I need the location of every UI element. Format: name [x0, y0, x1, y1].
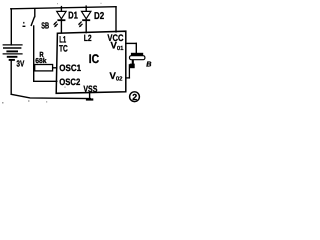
wire D2 bottom lead to L2	[85, 20, 87, 33]
svg-text:3V: 3V	[16, 59, 24, 69]
wire D2 top stub	[85, 7, 87, 11]
wire resistor right lead	[53, 67, 57, 69]
svg-text:68k: 68k	[35, 56, 46, 65]
junction tick D1 stub	[61, 6, 62, 8]
wire switch to OSC2 vertical	[33, 26, 35, 81]
junction tick D2 stub	[86, 5, 87, 7]
LED D2	[78, 11, 91, 27]
wire D1 top stub	[60, 8, 62, 11]
wire VO2 jog vertical	[128, 65, 130, 78]
wire piezo top lead	[135, 43, 137, 52]
svg-text:OSC2: OSC2	[59, 77, 80, 87]
svg-text:VSS: VSS	[83, 84, 97, 94]
wire bottom rail	[11, 94, 90, 98]
wire VSS stub	[89, 93, 91, 99]
svg-text:SB: SB	[41, 20, 49, 30]
LED D1	[53, 11, 66, 27]
speckle dots (scan noise)	[2, 3, 101, 104]
wire VO1 horizontal	[126, 42, 137, 44]
svg-text:B: B	[146, 60, 151, 69]
wire VO2 horizontal	[126, 77, 130, 79]
node circled 2 figure number	[130, 92, 140, 102]
piezo buzzer B	[130, 53, 145, 68]
svg-text:D1: D1	[68, 11, 78, 22]
svg-text:IC: IC	[89, 52, 99, 66]
svg-text:2: 2	[132, 92, 137, 102]
resistor R 68k	[35, 65, 53, 71]
wire switch stub from rail	[34, 9, 36, 17]
svg-text:OSC1: OSC1	[59, 63, 81, 73]
switch SB	[23, 17, 35, 27]
svg-text:D2: D2	[94, 11, 105, 22]
op IC box	[56, 31, 126, 93]
wire D1 bottom lead to L1	[60, 20, 62, 33]
battery 3V	[3, 45, 23, 60]
svg-text:L2: L2	[84, 33, 92, 43]
wire top rail	[11, 7, 116, 9]
wire OSC2 horizontal	[34, 80, 57, 82]
wire battery bottom lead	[10, 60, 12, 94]
junction VSS ground bar	[86, 98, 93, 100]
wire battery top lead	[10, 9, 12, 45]
wire VCC lead	[115, 7, 117, 32]
svg-text:TC: TC	[59, 44, 68, 54]
wire resistor left lead	[34, 67, 35, 69]
